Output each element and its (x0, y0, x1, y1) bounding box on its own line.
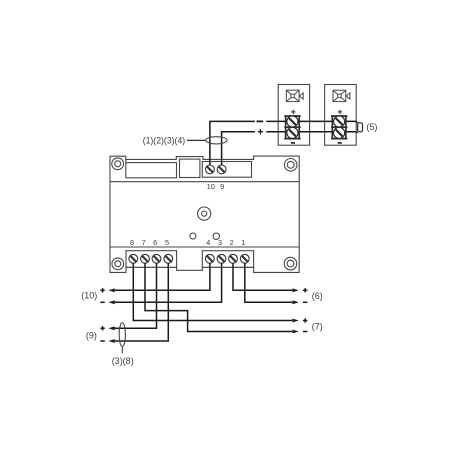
terminal screw 5 (164, 254, 173, 263)
arrow (9)+ (108, 326, 115, 330)
wire: screw 8 to (7)+ (133, 263, 292, 320)
plus (7) (303, 320, 307, 322)
svg-text:9: 9 (220, 182, 224, 191)
minus (6) (303, 301, 307, 303)
minus (9) (100, 340, 104, 342)
mounting hole top-left (112, 158, 124, 170)
wire: terminal 10 to sounders (minus line) (210, 121, 356, 165)
sounder 1 internals (284, 90, 303, 144)
mounting hole top-right (284, 159, 297, 172)
terminal screw 10 (206, 165, 215, 174)
terminal screw 8 (129, 254, 138, 263)
terminal screw 1 (240, 254, 249, 263)
speaker icon S1 (286, 90, 303, 101)
plus mark S1 (291, 110, 295, 114)
terminal block S2 (331, 116, 347, 139)
minus (7) (303, 331, 307, 333)
svg-text:(1)(2)(3)(4): (1)(2)(3)(4) (143, 136, 186, 146)
minus mark S2 (338, 142, 342, 144)
terminal screw 2 (229, 254, 238, 263)
svg-text:(5): (5) (366, 122, 377, 132)
polarity signs right column (303, 288, 307, 331)
svg-text:5: 5 (165, 238, 169, 247)
sounder indicator circle (198, 207, 211, 220)
wire: screw 6 to (9)+ (115, 263, 157, 328)
leader line (187, 139, 206, 141)
plus (10) (100, 289, 104, 291)
screw S1 bottom (287, 127, 298, 138)
svg-text:1: 1 (241, 238, 245, 247)
plus (6) (303, 289, 307, 291)
arrow (6)- (292, 300, 299, 304)
component square (180, 159, 200, 177)
svg-text:4: 4 (206, 238, 210, 247)
terminal screw 3 (217, 254, 226, 263)
mounting hole bottom-right (284, 257, 297, 270)
module bottom separator line (110, 246, 299, 248)
module tab edge segment (125, 159, 127, 162)
svg-text:8: 8 (130, 238, 134, 247)
svg-text:(9): (9) (86, 330, 97, 340)
label window rectangle (126, 163, 177, 178)
wire: screw 1 to (6)- (245, 263, 292, 302)
wire: screw 4 to (10)+ (115, 263, 210, 290)
arrow (10)+ (108, 288, 115, 292)
wire: terminal 9 to sounders (plus line) (222, 132, 357, 165)
terminal screw 4 (205, 254, 214, 263)
plus (9) (100, 327, 104, 329)
polarity plus on wire (258, 129, 263, 134)
speaker icon S2 (333, 90, 350, 101)
svg-text:10: 10 (207, 182, 215, 191)
minus mark S1 (291, 142, 295, 144)
svg-text:(10): (10) (81, 291, 97, 301)
arrow (7)- (292, 330, 299, 334)
module U1 outline (110, 156, 299, 272)
svg-text:3: 3 (218, 238, 222, 247)
svg-text:(6): (6) (312, 291, 323, 301)
terminal screw 6 (152, 254, 161, 263)
arrow (10)- (108, 300, 115, 304)
wire: screw 5 to (9)- (115, 263, 168, 341)
terminal block S1 (284, 116, 300, 139)
terminal screw 7 (141, 254, 150, 263)
module top separator line (110, 181, 299, 183)
terminal block top (10,9) (202, 162, 251, 178)
cable ellipse (3)(8) (119, 323, 125, 354)
arrow (7)+ (292, 319, 299, 323)
screw S2 bottom (334, 127, 345, 138)
terminal block bottom-right (4,3,2,1) (202, 251, 253, 268)
connector plug after sounder 2 (356, 122, 362, 134)
polarity minus on wire (257, 120, 264, 122)
svg-text:6: 6 (153, 238, 157, 247)
sounder box 2 (325, 85, 357, 146)
mounting hole bottom-left (112, 258, 124, 270)
polarity signs left column (100, 288, 104, 341)
arrow (9)- (108, 339, 115, 343)
minus (10) (100, 301, 104, 303)
svg-text:(7): (7) (312, 321, 323, 331)
screw S2 top (334, 116, 345, 127)
svg-text:(3)(8): (3)(8) (112, 356, 134, 366)
svg-text:7: 7 (142, 238, 146, 247)
wire: screw 2 to (6)+ (233, 263, 292, 290)
wire: screw 3 to (10)- (115, 263, 222, 302)
screw S1 top (287, 116, 298, 127)
cable ellipse (1)(2)(3)(4) (206, 137, 227, 144)
sounder box 1 (278, 85, 309, 146)
wire: screw 7 jog to (7)- (145, 263, 292, 331)
terminal block bottom-left (8,7,6,5) (126, 251, 177, 268)
svg-text:2: 2 (229, 238, 233, 247)
plus mark S2 (338, 110, 342, 114)
sounder 2 internals (331, 90, 350, 144)
terminal screw 9 (217, 165, 226, 174)
small hole left (190, 233, 196, 239)
small hole right (213, 233, 219, 239)
arrow (6)+ (292, 288, 299, 292)
